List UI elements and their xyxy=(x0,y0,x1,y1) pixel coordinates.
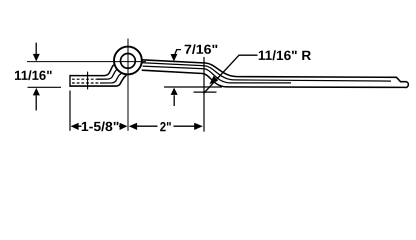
upper bar bottom line xyxy=(142,70,227,87)
svg-text:1-5/8": 1-5/8" xyxy=(81,119,120,134)
right bar bottom line with rounded end cap xyxy=(227,82,409,88)
svg-text:7/16": 7/16" xyxy=(184,42,218,57)
svg-text:11/16": 11/16" xyxy=(14,68,52,83)
extension line at jog x=204 xyxy=(203,57,205,132)
2 inch dimension line right arrow xyxy=(174,123,203,130)
loop inner circle xyxy=(121,54,136,69)
left bar left end closure xyxy=(69,75,71,87)
right bar middle line 1 xyxy=(234,80,392,81)
vertical centerline through loop xyxy=(127,39,129,131)
2 inch dimension line left arrow xyxy=(129,123,158,130)
11/16 dimension bottom extension line xyxy=(28,86,62,88)
left bar inner dashed line 1 xyxy=(72,78,97,80)
7/16 leader elbow xyxy=(175,50,181,54)
11/16 R arrowhead xyxy=(209,76,218,85)
S-curve top line into loop xyxy=(98,64,115,75)
7/16 down arrow xyxy=(171,54,178,62)
svg-text:2": 2" xyxy=(160,119,172,134)
left bar top outline xyxy=(70,75,98,77)
11/16 R leader xyxy=(204,55,258,93)
horizontal centerline through loop / 11-16 top extension xyxy=(27,61,146,63)
S-curve second line into loop xyxy=(97,69,118,79)
loop outer circle xyxy=(114,47,142,75)
svg-text:11/16" R: 11/16" R xyxy=(258,48,312,63)
upper bar line 2 xyxy=(143,63,234,80)
7/16 bottom extension line xyxy=(164,86,222,88)
1-5/8 dimension line right arrow xyxy=(119,123,127,130)
S-curve third line into loop xyxy=(100,73,121,83)
right bar top line with end bevel xyxy=(237,77,406,82)
7/16 up arrow xyxy=(171,88,178,106)
11/16 dimension up arrow xyxy=(33,88,40,111)
tick mark on left bar xyxy=(87,72,89,90)
11/16 dimension down arrow xyxy=(33,43,40,62)
left bar bottom outline xyxy=(70,85,103,87)
upper bar line 3 xyxy=(143,66,231,83)
right bar middle line 2 xyxy=(230,82,291,84)
short extra extension line below jog xyxy=(194,91,217,93)
1-5/8 dimension line left arrow xyxy=(71,123,82,130)
extension line at bar left end x=70 xyxy=(69,91,71,131)
S-curve bottom line into loop xyxy=(103,75,126,86)
upper bar top line xyxy=(142,60,237,77)
left bar inner dashed line 2 xyxy=(72,82,100,84)
